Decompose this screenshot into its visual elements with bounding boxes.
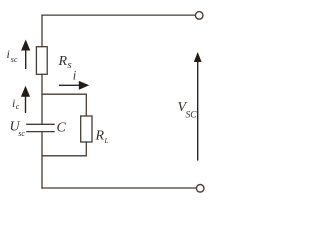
wire left vertical middle [41,74,43,124]
terminal bottom right [196,185,204,193]
arrowhead i [79,81,90,90]
wire left vertical upper [41,15,43,47]
svg-text:R: R [95,129,105,144]
terminal top right [195,12,203,20]
wire junction to RL branch [42,94,86,116]
arrowhead i_sc [21,40,30,51]
resistor RS [36,47,47,75]
svg-text:sc: sc [11,55,18,64]
resistor RL [81,116,92,142]
wire RL bottom return [42,142,86,156]
wire left vertical lower [41,132,43,188]
svg-text:s: s [67,59,71,71]
arrowhead V_SC [194,52,202,62]
svg-text:L: L [104,137,109,145]
svg-text:sc: sc [18,129,25,138]
current arrow i_c shaft [25,93,27,113]
svg-text:R: R [58,54,68,69]
wire top horizontal [42,14,195,16]
capacitor C bottom plate [27,131,54,133]
arrowhead i_c [21,86,30,97]
current arrow i_sc shaft [25,48,27,69]
svg-text:SC: SC [186,111,198,121]
capacitor C top plate [27,123,54,125]
svg-text:C: C [57,121,67,136]
svg-text:c: c [16,102,20,111]
voltage arrow V_SC shaft [197,59,199,161]
svg-text:i: i [73,69,77,83]
current arrow i shaft [59,84,81,86]
svg-text:i: i [7,47,10,61]
wire bottom horizontal [42,187,196,189]
